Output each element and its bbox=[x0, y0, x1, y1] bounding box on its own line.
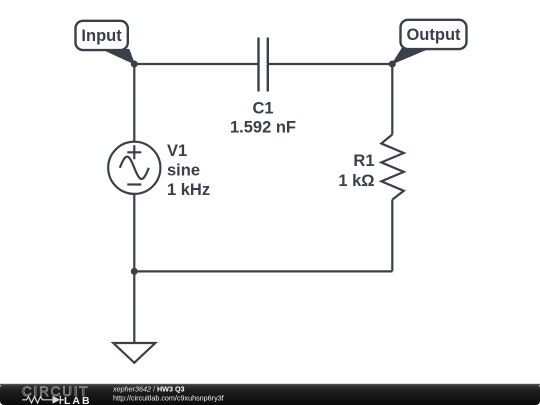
capacitor C1 bbox=[259, 38, 268, 92]
wire bottom horizontal bbox=[134, 270, 392, 272]
label V1 value bbox=[167, 142, 210, 199]
svg-text:1 kΩ: 1 kΩ bbox=[338, 172, 374, 190]
svg-text:sine: sine bbox=[167, 162, 200, 180]
label R1 value bbox=[338, 152, 374, 190]
wire left vertical lower bbox=[133, 194, 135, 272]
resistor R1 bbox=[381, 135, 404, 200]
node Input flag bbox=[76, 21, 135, 64]
svg-text:V1: V1 bbox=[167, 142, 187, 160]
svg-text:R1: R1 bbox=[353, 152, 374, 170]
label C1 value bbox=[230, 99, 296, 136]
node Output flag bbox=[392, 20, 466, 64]
footer logo CIRCUIT LAB bbox=[22, 384, 92, 405]
svg-text:Output: Output bbox=[406, 26, 461, 44]
wire ground stem bbox=[133, 271, 135, 343]
svg-text:xepher3642 / HW3 Q3: xepher3642 / HW3 Q3 bbox=[112, 384, 185, 393]
node ground junction dot bbox=[131, 268, 138, 275]
ground bbox=[113, 343, 155, 363]
footer bar bbox=[0, 384, 540, 405]
svg-text:Input: Input bbox=[81, 27, 122, 45]
svg-text:LAB: LAB bbox=[64, 395, 92, 405]
wire right vertical upper bbox=[391, 64, 393, 135]
node Output junction dot bbox=[389, 61, 396, 68]
wire right vertical lower bbox=[391, 200, 393, 272]
wire left vertical upper bbox=[133, 64, 135, 142]
svg-text:http://circuitlab.com/c9xuhsnp: http://circuitlab.com/c9xuhsnp6ry3f bbox=[113, 393, 224, 402]
voltage source V1 bbox=[108, 142, 160, 194]
svg-text:1.592 nF: 1.592 nF bbox=[230, 118, 296, 136]
wire top right horizontal bbox=[268, 63, 393, 65]
node Input junction dot bbox=[131, 61, 138, 68]
svg-text:1 kHz: 1 kHz bbox=[167, 181, 210, 199]
svg-text:C1: C1 bbox=[252, 99, 273, 117]
wire top left horizontal bbox=[134, 63, 258, 65]
